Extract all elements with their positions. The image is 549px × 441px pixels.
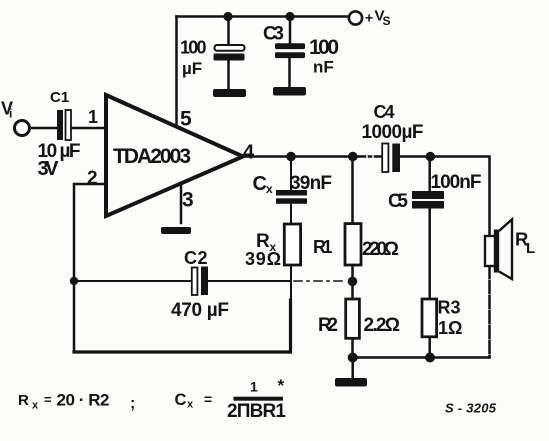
svg-text:S - 3205: S - 3205 (445, 401, 497, 416)
svg-text:2.2Ω: 2.2Ω (364, 315, 401, 336)
svg-text:µF: µF (182, 59, 202, 78)
svg-text:C: C (253, 173, 267, 195)
svg-text:39nF: 39nF (290, 173, 332, 194)
svg-text:nF: nF (313, 58, 334, 77)
svg-text:39Ω: 39Ω (245, 249, 281, 269)
svg-text:3V: 3V (38, 158, 60, 180)
svg-text:100: 100 (180, 38, 207, 58)
svg-text:C: C (184, 248, 197, 268)
svg-text:;: ; (130, 395, 135, 412)
svg-text:C5: C5 (388, 191, 408, 212)
svg-text:3: 3 (182, 189, 194, 212)
svg-text:R: R (18, 392, 29, 409)
svg-text:=: = (44, 392, 52, 407)
svg-text:=: = (204, 391, 212, 407)
svg-text:2ΠBR1: 2ΠBR1 (227, 401, 286, 422)
svg-text:4: 4 (243, 142, 255, 164)
svg-text:1Ω: 1Ω (438, 318, 462, 338)
svg-text:i: i (9, 107, 12, 121)
svg-text:TDA2003: TDA2003 (113, 145, 191, 168)
svg-text:100nF: 100nF (431, 172, 482, 193)
svg-text:1: 1 (88, 107, 98, 127)
svg-text:C1: C1 (50, 89, 69, 106)
svg-text:20 · R2: 20 · R2 (57, 391, 110, 410)
svg-text:R1: R1 (313, 237, 333, 257)
svg-text:R2: R2 (318, 315, 338, 336)
svg-text:*: * (278, 376, 285, 395)
svg-text:470 µF: 470 µF (171, 300, 229, 321)
svg-text:+: + (365, 10, 373, 26)
svg-text:S: S (383, 14, 391, 28)
svg-text:1000µF: 1000µF (362, 122, 424, 143)
svg-text:2: 2 (87, 168, 98, 189)
svg-text:5: 5 (180, 108, 192, 131)
svg-text:2: 2 (198, 248, 208, 268)
svg-text:C3: C3 (263, 24, 284, 45)
svg-text:C: C (175, 391, 187, 409)
svg-text:1: 1 (250, 379, 258, 395)
svg-text:220Ω: 220Ω (362, 239, 399, 260)
svg-text:C4: C4 (374, 102, 395, 122)
svg-text:x: x (187, 399, 194, 411)
svg-text:L: L (526, 240, 535, 257)
svg-text:R3: R3 (438, 298, 461, 318)
svg-text:100: 100 (309, 36, 339, 59)
svg-text:x: x (266, 182, 273, 196)
svg-text:x: x (32, 400, 39, 412)
